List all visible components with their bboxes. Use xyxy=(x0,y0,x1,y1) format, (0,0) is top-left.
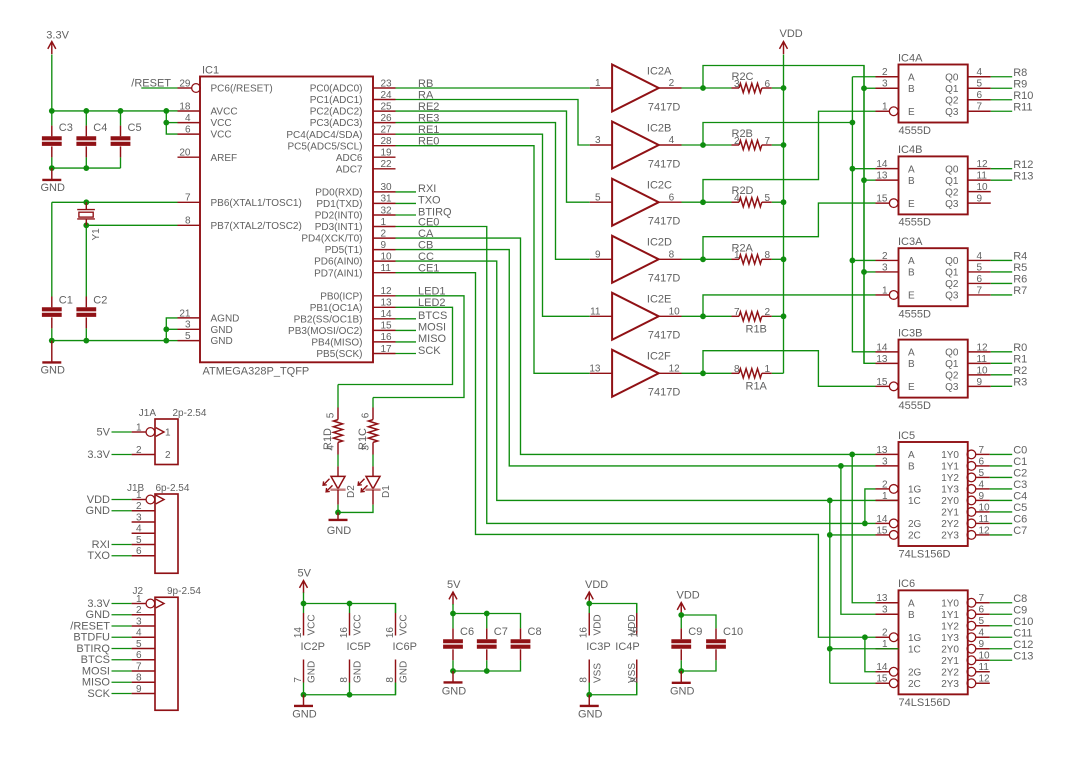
wire RE2 xyxy=(396,111,590,202)
node IC5P gnd xyxy=(347,692,353,698)
demux IC6 74LS156D body xyxy=(898,578,968,709)
wire XTAL1 net xyxy=(52,201,178,203)
svg-text:C9: C9 xyxy=(688,626,702,638)
node junction VCC pin4 xyxy=(163,120,169,126)
wire IC2F out to IC3B E xyxy=(703,351,876,387)
node IC2P vcc xyxy=(301,601,307,607)
svg-text:R2C: R2C xyxy=(732,71,754,83)
pin 14 2G of IC5 xyxy=(876,514,922,530)
svg-text:30: 30 xyxy=(381,182,393,193)
pin 5 of J1B xyxy=(132,535,155,546)
svg-text:BTDFU: BTDFU xyxy=(73,632,110,644)
pin 11 Q1 of IC4B xyxy=(945,171,991,187)
svg-text:C10: C10 xyxy=(723,626,743,638)
svg-text:5: 5 xyxy=(185,331,191,342)
ground GND below C3 xyxy=(41,168,66,194)
svg-text:7: 7 xyxy=(979,593,985,604)
svg-text:2Y0: 2Y0 xyxy=(941,496,959,507)
svg-text:16: 16 xyxy=(385,627,396,639)
ground GND below IC3P xyxy=(578,695,603,721)
svg-text:5V: 5V xyxy=(97,426,111,438)
node junction C1 gnd xyxy=(49,338,55,344)
svg-text:C11: C11 xyxy=(1013,627,1032,639)
svg-text:D2: D2 xyxy=(346,485,357,498)
pin 32 PD2(INT0) xyxy=(315,205,396,221)
svg-text:1Y2: 1Y2 xyxy=(941,621,959,632)
wire A bus decoders xyxy=(852,77,875,352)
svg-text:BTCS: BTCS xyxy=(81,654,110,666)
wire R1A right xyxy=(772,372,784,374)
svg-text:1: 1 xyxy=(882,285,888,296)
svg-text:3: 3 xyxy=(595,135,601,146)
svg-text:R1B: R1B xyxy=(746,323,767,335)
svg-text:2Y1: 2Y1 xyxy=(941,656,959,667)
svg-text:9: 9 xyxy=(381,240,387,251)
wire RXI xyxy=(396,191,417,193)
svg-text:29: 29 xyxy=(179,78,191,89)
resistor R2B xyxy=(732,128,772,150)
pin 5 1Y2 of IC5 xyxy=(941,468,990,484)
wire D1 cathode to gnd xyxy=(338,505,373,513)
pin 12 Q0 of IC3B xyxy=(945,342,991,358)
svg-text:5: 5 xyxy=(325,412,336,418)
wire CE1 xyxy=(396,273,876,638)
svg-text:E: E xyxy=(908,291,915,302)
svg-text:7417D: 7417D xyxy=(648,101,680,113)
pin 7 PB6(XTAL1/TOSC1) xyxy=(178,193,302,209)
node A bus IC3A xyxy=(850,258,856,264)
wire RA xyxy=(396,100,590,146)
svg-text:10: 10 xyxy=(977,365,989,376)
pin 1 of J1A xyxy=(132,422,171,438)
svg-text:C6: C6 xyxy=(460,626,474,638)
pin 12 2Y3 of IC6 xyxy=(941,674,990,690)
pin 31 PD1(TXD) xyxy=(316,194,395,210)
pin 1 of J2 xyxy=(132,594,164,608)
wire RXI to J1B pin 5 xyxy=(112,544,132,546)
wire R1A left xyxy=(703,372,732,374)
wire VDD to C9 rail xyxy=(680,614,682,617)
svg-text:R5: R5 xyxy=(1013,262,1027,274)
svg-text:6: 6 xyxy=(977,274,983,285)
wire R1B left xyxy=(703,315,732,317)
svg-text:2: 2 xyxy=(136,605,142,616)
wire rail to pin 5 xyxy=(166,340,177,342)
pin 5 GND xyxy=(178,331,233,347)
svg-text:PC2(ADC2): PC2(ADC2) xyxy=(310,107,363,118)
pin 4 Q0 of IC3A xyxy=(945,251,991,267)
connector J1B header body xyxy=(127,483,190,573)
svg-text:8: 8 xyxy=(765,250,771,261)
pin 10 2Y1 of IC5 xyxy=(941,502,990,518)
pin 10 Q2 of IC4B xyxy=(945,182,991,198)
svg-text:20: 20 xyxy=(179,148,191,159)
pin 6 VCC xyxy=(178,125,232,141)
svg-text:3: 3 xyxy=(882,456,888,467)
power pins IC4P xyxy=(615,604,640,695)
svg-text:24: 24 xyxy=(381,90,393,101)
svg-text:2: 2 xyxy=(165,450,171,461)
svg-text:6: 6 xyxy=(185,125,191,136)
pin 4 1Y3 of IC6 xyxy=(941,628,990,644)
svg-text:IC6: IC6 xyxy=(898,578,915,590)
svg-text:Y1: Y1 xyxy=(91,228,102,241)
svg-text:4555D: 4555D xyxy=(899,400,931,412)
node IC2D output junction xyxy=(700,256,706,262)
pin 14 A of IC3B xyxy=(876,342,916,358)
buffer IC2B 7417D xyxy=(590,122,682,171)
wire 3.3V to J2 pin 1 xyxy=(112,603,132,605)
svg-text:IC2A: IC2A xyxy=(647,65,672,77)
svg-text:8: 8 xyxy=(669,250,675,261)
svg-text:GND: GND xyxy=(327,525,352,537)
svg-text:1Y0: 1Y0 xyxy=(941,598,959,609)
svg-text:Q1: Q1 xyxy=(945,84,959,95)
svg-text:ADC7: ADC7 xyxy=(336,164,363,175)
svg-text:11: 11 xyxy=(979,662,990,673)
pin 2 PD4(XCK/T0) xyxy=(301,228,395,244)
svg-text:Q3: Q3 xyxy=(945,291,959,302)
svg-text:A: A xyxy=(908,347,915,358)
svg-text:PD4(XCK/T0): PD4(XCK/T0) xyxy=(301,234,362,245)
power symbol VDD main xyxy=(780,28,803,54)
pin 27 PC4(ADC4/SDA) xyxy=(286,125,395,141)
svg-text:9: 9 xyxy=(979,491,985,502)
pin 14 A of IC4B xyxy=(876,159,916,175)
pin 1 1C of IC5 xyxy=(876,491,921,507)
svg-text:3: 3 xyxy=(136,616,142,627)
svg-text:13: 13 xyxy=(876,445,888,456)
svg-text:PB5(SCK): PB5(SCK) xyxy=(316,349,362,360)
pin 21 AGND xyxy=(178,308,240,324)
buffer IC2D 7417D xyxy=(590,236,682,285)
wire A bus to IC4A A xyxy=(852,76,875,78)
svg-text:15: 15 xyxy=(876,194,888,205)
svg-text:/RESET: /RESET xyxy=(70,620,110,632)
svg-text:C1: C1 xyxy=(1013,456,1027,468)
svg-text:GND: GND xyxy=(292,708,317,720)
pin 11 PD7(AIN1) xyxy=(314,263,395,279)
svg-text:15: 15 xyxy=(381,321,393,332)
svg-text:VDD: VDD xyxy=(585,579,608,591)
svg-text:9: 9 xyxy=(979,639,985,650)
node R2A VDD junction xyxy=(781,256,787,262)
svg-text:1C: 1C xyxy=(908,644,921,655)
svg-text:PD6(AIN0): PD6(AIN0) xyxy=(314,257,362,268)
wire C to IC6 2C xyxy=(830,682,876,684)
resistor R1B xyxy=(732,307,772,335)
wire G6 to 2G xyxy=(865,637,876,672)
svg-text:2Y0: 2Y0 xyxy=(941,644,959,655)
svg-text:GND: GND xyxy=(41,182,66,194)
wire R2A left xyxy=(703,258,732,260)
resistor R2D xyxy=(732,185,772,207)
svg-text:IC2F: IC2F xyxy=(647,351,671,363)
svg-text:Q1: Q1 xyxy=(945,176,959,187)
wire output C10 xyxy=(990,625,1012,627)
svg-text:PD5(T1): PD5(T1) xyxy=(325,245,363,256)
wire BTIRQ xyxy=(396,214,417,216)
svg-text:TXO: TXO xyxy=(418,195,441,207)
pin 5 1Y2 of IC6 xyxy=(941,616,990,632)
svg-text:PB0(ICP): PB0(ICP) xyxy=(320,291,362,302)
svg-text:5: 5 xyxy=(595,192,601,203)
pin 5 of J2 xyxy=(132,639,155,650)
wire SCK to J2 pin 9 xyxy=(112,693,132,695)
svg-text:Q2: Q2 xyxy=(945,279,959,290)
svg-text:8: 8 xyxy=(185,216,191,227)
svg-text:10: 10 xyxy=(977,182,989,193)
svg-text:Q3: Q3 xyxy=(945,382,959,393)
wire C to IC5 2C xyxy=(830,534,876,536)
svg-text:1: 1 xyxy=(595,78,601,89)
wire output C0 xyxy=(990,453,1012,455)
resistor R1A xyxy=(732,364,772,392)
node A bus IC4B xyxy=(850,166,856,172)
svg-text:R2D: R2D xyxy=(732,185,754,197)
svg-text:ATMEGA328P_TQFP: ATMEGA328P_TQFP xyxy=(203,366,310,378)
svg-text:R2B: R2B xyxy=(732,128,753,140)
svg-text:R11: R11 xyxy=(1013,101,1032,113)
pin 14 2G of IC6 xyxy=(876,662,922,678)
ground GND below C1 xyxy=(41,341,66,377)
svg-text:6: 6 xyxy=(977,90,983,101)
svg-text:2: 2 xyxy=(381,228,387,239)
capacitor C1 xyxy=(42,295,73,341)
pin 11 Q1 of IC3B xyxy=(945,354,991,370)
connector J2 header body xyxy=(133,586,202,710)
svg-text:2: 2 xyxy=(882,251,888,262)
node C9 bottom xyxy=(678,668,684,674)
wire branch to VCC pins xyxy=(166,111,177,134)
pin 13 PB1(OC1A) xyxy=(310,298,396,314)
wire RB xyxy=(396,87,590,89)
pin 14 PB2(SS/OC1B) xyxy=(294,309,396,325)
svg-text:IC2D: IC2D xyxy=(647,237,672,249)
svg-text:14: 14 xyxy=(876,514,888,525)
node junction Y1 top xyxy=(83,199,89,205)
pin 6 1Y1 of IC6 xyxy=(941,605,990,621)
svg-text:C3: C3 xyxy=(1013,479,1027,491)
wire output R2 xyxy=(991,374,1012,376)
pin 20 AREF xyxy=(178,148,238,164)
wire SCK xyxy=(396,353,417,355)
decoder IC4B 4555D body xyxy=(898,144,968,229)
svg-text:Q0: Q0 xyxy=(945,72,959,83)
pin 15 E of IC4B xyxy=(876,194,916,210)
wire A bus to IC4B A xyxy=(852,168,875,170)
pin 13 A of IC6 xyxy=(876,593,916,609)
svg-text:16: 16 xyxy=(579,627,590,639)
svg-text:3.3V: 3.3V xyxy=(46,30,69,42)
svg-text:12: 12 xyxy=(381,286,393,297)
svg-text:PC5(ADC5/SCL): PC5(ADC5/SCL) xyxy=(287,141,362,152)
pin 7 1Y0 of IC5 xyxy=(941,445,990,461)
node B bus IC4A xyxy=(861,85,867,91)
svg-text:3: 3 xyxy=(882,79,888,90)
svg-text:2G: 2G xyxy=(908,519,922,530)
svg-text:1C: 1C xyxy=(908,496,921,507)
capacitor C5 xyxy=(111,111,142,168)
svg-text:VDD: VDD xyxy=(677,590,700,602)
svg-text:ADC6: ADC6 xyxy=(336,153,363,164)
svg-text:14: 14 xyxy=(381,309,393,320)
node IC3P vcc xyxy=(586,601,592,607)
pin 15 PB3(MOSI/OC2) xyxy=(288,321,395,337)
ground GND below IC2P xyxy=(292,695,317,721)
svg-text:15: 15 xyxy=(876,525,888,536)
power pins IC2P xyxy=(293,604,325,695)
wire B bus to IC4B B xyxy=(864,179,876,181)
svg-text:5: 5 xyxy=(979,616,985,627)
wire output R4 xyxy=(991,259,1012,261)
wire output R12 xyxy=(991,168,1012,170)
LED D2 xyxy=(323,466,357,504)
wire MISO xyxy=(396,341,417,343)
pin 1 1C of IC6 xyxy=(876,639,921,655)
wire R2B left xyxy=(703,144,732,146)
svg-text:B: B xyxy=(908,176,915,187)
svg-text:IC4P: IC4P xyxy=(615,641,639,653)
buffer IC2C 7417D xyxy=(590,179,682,228)
svg-text:VCC: VCC xyxy=(211,130,232,141)
svg-text:Q2: Q2 xyxy=(945,187,959,198)
wire branch AGND GND xyxy=(166,318,177,341)
svg-text:VDD: VDD xyxy=(592,614,603,635)
svg-text:PB2(SS/OC1B): PB2(SS/OC1B) xyxy=(294,314,363,325)
pin 3 B of IC5 xyxy=(876,456,916,472)
svg-text:PD0(RXD): PD0(RXD) xyxy=(315,188,362,199)
pin 1 PD3(INT1) xyxy=(315,217,396,233)
wire /RESET to J2 pin 3 xyxy=(112,625,132,627)
svg-text:B: B xyxy=(908,462,915,473)
svg-text:7417D: 7417D xyxy=(648,330,680,342)
wire output C13 xyxy=(990,659,1012,661)
svg-text:C6: C6 xyxy=(1013,514,1027,526)
svg-text:PC4(ADC4/SDA): PC4(ADC4/SDA) xyxy=(286,130,362,141)
wire IC2A output xyxy=(682,87,704,89)
svg-text:PC6(/RESET): PC6(/RESET) xyxy=(211,84,273,95)
svg-text:8: 8 xyxy=(136,673,142,684)
svg-text:A: A xyxy=(908,164,915,175)
capacitor C8 xyxy=(511,626,542,660)
pin 9 Q3 of IC4B xyxy=(945,194,991,210)
svg-text:R1C: R1C xyxy=(357,428,369,450)
svg-text:C4: C4 xyxy=(93,122,107,134)
power symbol 5V at C6 xyxy=(447,579,461,605)
svg-text:12: 12 xyxy=(979,674,991,685)
svg-text:2Y1: 2Y1 xyxy=(941,508,959,519)
svg-text:5: 5 xyxy=(977,79,983,90)
svg-text:Q3: Q3 xyxy=(945,107,959,118)
wire IC2B output xyxy=(682,144,704,146)
svg-text:Q3: Q3 xyxy=(945,199,959,210)
wire IC2E output xyxy=(682,315,704,317)
wire B bus to IC4A B xyxy=(864,87,876,89)
node LED gnd junction xyxy=(335,510,341,516)
power pins IC5P xyxy=(339,604,371,695)
pin 9 2Y0 of IC6 xyxy=(941,639,990,655)
wire output C12 xyxy=(990,648,1012,650)
wire GND to J2 pin 2 xyxy=(112,614,132,616)
svg-text:11: 11 xyxy=(979,514,990,525)
svg-text:IC2P: IC2P xyxy=(301,641,325,653)
wire C to IC6 1C xyxy=(830,648,899,650)
svg-text:RXI: RXI xyxy=(418,183,436,195)
pin 15 2C of IC5 xyxy=(876,525,921,541)
wire R2C left xyxy=(703,87,732,89)
node R2D VDD junction xyxy=(781,199,787,205)
svg-text:1Y1: 1Y1 xyxy=(941,610,959,621)
svg-text:IC2C: IC2C xyxy=(647,180,672,192)
svg-text:GND: GND xyxy=(353,661,364,683)
svg-text:11: 11 xyxy=(381,263,392,274)
pin 28 PC5(ADC5/SCL) xyxy=(287,136,395,152)
svg-text:1Y2: 1Y2 xyxy=(941,473,959,484)
decoder IC3B 4555D body xyxy=(898,327,968,412)
ground GND below C9 xyxy=(670,671,695,697)
svg-text:4: 4 xyxy=(136,628,142,639)
svg-text:32: 32 xyxy=(381,205,393,216)
node C9 top xyxy=(678,612,684,618)
svg-text:74LS156D: 74LS156D xyxy=(899,549,951,561)
svg-text:13: 13 xyxy=(876,171,888,182)
svg-text:GND: GND xyxy=(211,336,233,347)
pin 8 of J2 xyxy=(132,673,155,684)
pin 3 B of IC3A xyxy=(876,262,916,278)
node junction C3 top xyxy=(49,108,55,114)
svg-text:74LS156D: 74LS156D xyxy=(899,697,951,709)
svg-text:1: 1 xyxy=(136,422,142,433)
svg-text:Q1: Q1 xyxy=(945,268,959,279)
pin 24 PC1(ADC1) xyxy=(310,90,396,106)
svg-text:9p-2.54: 9p-2.54 xyxy=(167,586,201,597)
svg-text:AGND: AGND xyxy=(211,314,240,325)
pin 25 PC2(ADC2) xyxy=(310,101,396,117)
wire output C1 xyxy=(990,465,1012,467)
svg-text:C8: C8 xyxy=(528,626,542,638)
node IC2F output junction xyxy=(700,370,706,376)
wire output R3 xyxy=(991,385,1012,387)
svg-text:IC2E: IC2E xyxy=(647,294,671,306)
wire output R10 xyxy=(991,99,1012,101)
svg-text:2: 2 xyxy=(882,67,888,78)
svg-text:R1D: R1D xyxy=(322,428,334,450)
svg-text:GND: GND xyxy=(307,661,318,683)
wire C9 top rail xyxy=(681,615,716,628)
pin 2 A of IC4A xyxy=(876,67,916,83)
svg-text:E: E xyxy=(908,382,915,393)
wire 5V to rail xyxy=(303,593,305,604)
wire output R7 xyxy=(991,294,1012,296)
pin 13 B of IC4B xyxy=(876,171,916,187)
svg-text:12: 12 xyxy=(979,525,991,536)
svg-text:RXI: RXI xyxy=(92,539,110,551)
pin 12 2Y3 of IC5 xyxy=(941,525,990,541)
wire 3.3V to rail xyxy=(51,55,53,111)
svg-text:VDD: VDD xyxy=(627,614,638,635)
node junction C2 gnd xyxy=(83,338,89,344)
svg-text:1: 1 xyxy=(882,102,888,113)
svg-text:TXO: TXO xyxy=(87,550,110,562)
buffer IC2F 7417D xyxy=(589,350,681,399)
svg-text:13: 13 xyxy=(876,593,888,604)
svg-text:2C: 2C xyxy=(908,679,921,690)
capacitor C10 xyxy=(706,626,743,660)
svg-text:4: 4 xyxy=(977,67,983,78)
svg-text:10: 10 xyxy=(979,502,991,513)
svg-text:B: B xyxy=(908,610,915,621)
